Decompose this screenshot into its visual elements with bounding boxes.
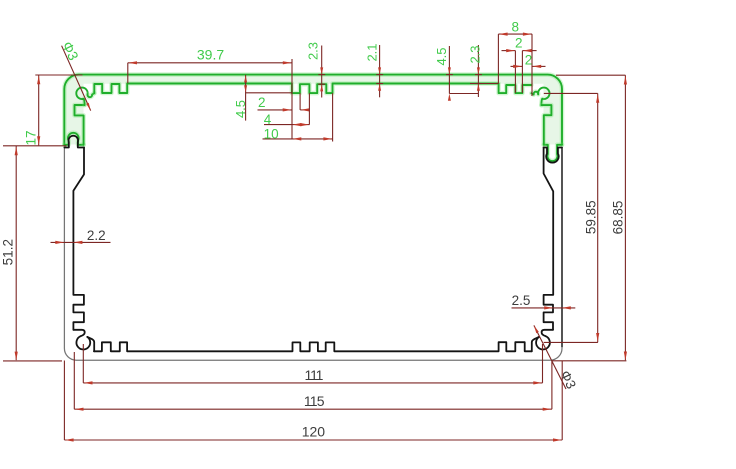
body right keyhole cup (receives lid tongue) and shoulder — [544, 148, 562, 163]
body bottom-left screw boss — [73, 330, 84, 336]
svg-text:10: 10 — [264, 127, 279, 142]
lid glow fill (pale green band) — [65, 75, 562, 145]
svg-text:4: 4 — [264, 112, 272, 127]
dimension 68.85 line — [624, 75, 626, 360]
lid right bottom edge with hanging tongue pin — [544, 145, 562, 161]
lid right inner wall with square notch — [541, 105, 551, 145]
extension line lid top right — [556, 74, 625, 76]
dimension 59.85 line — [597, 93, 599, 342]
extension line boss tooth — [308, 93, 310, 124]
dimension 120 line — [64, 439, 562, 441]
dimension 2 centre line — [258, 109, 292, 111]
body left tongue (into lid keyhole) and shoulder — [64, 136, 84, 148]
extension line green bottom — [3, 145, 67, 147]
dimension 17 line — [38, 75, 40, 145]
extension line serration end — [127, 63, 129, 84]
extension line right boss centre — [542, 344, 544, 383]
svg-text:68.85: 68.85 — [610, 201, 625, 235]
dimension 4.5 right line — [448, 46, 450, 94]
body bottom inner edge with serration groups — [94, 342, 532, 351]
body bottom-right screw boss — [542, 330, 553, 336]
dimension 115 line — [74, 408, 552, 410]
svg-text:2.3: 2.3 — [305, 42, 320, 60]
extension line lid top left — [35, 74, 82, 76]
svg-text:17: 17 — [23, 130, 38, 145]
leader phi-3 bottom-right — [534, 325, 566, 389]
lid left bottom edge with U-channel keyhole — [64, 133, 83, 145]
extension line body bottom left — [3, 360, 62, 362]
svg-text:2: 2 — [258, 95, 266, 110]
lid left screw-boss hook and circle — [84, 99, 85, 105]
svg-text:2.2: 2.2 — [87, 228, 106, 243]
svg-text:2.5: 2.5 — [512, 293, 531, 308]
dimension 39.7 line — [128, 62, 292, 64]
lid outer contour (top cover, green) — [64, 75, 562, 145]
extension line tooth gap right — [521, 51, 523, 93]
svg-text:4.5: 4.5 — [233, 100, 248, 118]
lid left inner wall with square notch — [75, 105, 85, 145]
extension line centre boss right edge — [332, 93, 334, 141]
extension line tooth gap left — [514, 51, 516, 93]
extension line boss step — [299, 93, 301, 110]
extension line teeth depth left — [246, 92, 292, 94]
extension line centre boss left edge — [291, 59, 293, 139]
extension line top boss centre — [544, 92, 598, 94]
dimension 2.3 right line — [477, 45, 479, 97]
svg-text:2.1: 2.1 — [364, 43, 379, 61]
lid right screw-boss hook and circle — [531, 92, 538, 95]
lid inner surface with serrations and centre screw-port teeth — [94, 84, 531, 94]
extension line left boss centre — [82, 344, 84, 383]
dimension 2.3 left line — [321, 46, 323, 98]
svg-text:2: 2 — [515, 36, 523, 51]
body right outer wall (dark) — [561, 148, 563, 347]
extension line right inner wall — [551, 361, 553, 409]
extension line right teeth right edge — [531, 34, 533, 96]
extension line left inner wall — [73, 352, 75, 409]
svg-text:111: 111 — [305, 367, 324, 383]
extension line body bottom right — [552, 360, 626, 362]
leader phi-3 top-left — [62, 46, 91, 111]
dimension 4 centre line — [264, 124, 310, 126]
svg-text:39.7: 39.7 — [197, 47, 224, 63]
extension line right teeth left edge — [497, 34, 499, 83]
dimension 4.5 left line — [245, 75, 247, 121]
extension line left outer wall — [63, 361, 65, 441]
svg-text:115: 115 — [304, 393, 325, 409]
dimension 10 centre line — [263, 138, 333, 140]
svg-text:4.5: 4.5 — [434, 47, 449, 65]
dimension 2.2 line — [51, 241, 111, 243]
svg-text:59.85: 59.85 — [584, 200, 599, 234]
body outer contour (thin) — [64, 148, 562, 361]
extension line bottom boss centre — [544, 341, 598, 343]
svg-text:8: 8 — [511, 19, 519, 34]
svg-text:2.3: 2.3 — [468, 45, 483, 63]
extension line right outer wall — [561, 361, 563, 440]
dimension 8 line — [498, 33, 532, 35]
svg-text:2: 2 — [525, 52, 533, 67]
dimension 2 top-right-a line — [502, 50, 516, 52]
dimension 51.2 line — [15, 146, 17, 360]
dimension 2.5 line — [512, 307, 576, 309]
svg-text:120: 120 — [302, 423, 326, 439]
extension line lid inner right — [470, 83, 499, 85]
body left inner wall with chamfer and serrations — [73, 148, 84, 330]
svg-text:51.2: 51.2 — [1, 239, 16, 265]
extension line teeth depth right — [449, 93, 478, 95]
dimension 2 top-right-b line — [511, 65, 523, 67]
dimension 2.1 line — [379, 45, 381, 97]
body right inner wall with serrations and chamfer — [544, 148, 554, 330]
dimension 111 line — [83, 382, 542, 384]
